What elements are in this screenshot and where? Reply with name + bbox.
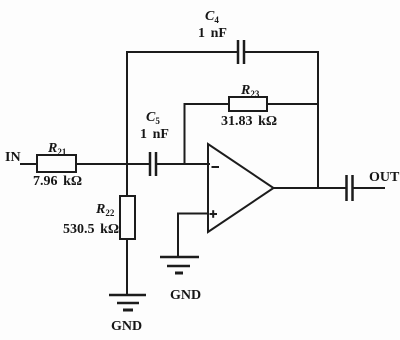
- svg-text:7.96 kΩ: 7.96 kΩ: [33, 174, 82, 189]
- svg-text:GND: GND: [111, 319, 142, 334]
- capacitor C5: [150, 152, 156, 176]
- wire op-amp output to coupling capacitor: [273, 187, 346, 189]
- resistor R23: [229, 97, 267, 111]
- wire node A up and across to C4 left plate: [127, 52, 236, 164]
- resistor R22: [120, 196, 135, 239]
- wire R23 left side down to inverting input node: [185, 104, 230, 164]
- wire C5 right plate to op-amp inverting input: [157, 163, 209, 165]
- wire R23 right side to output right leg: [267, 103, 318, 105]
- svg-text:1 nF: 1 nF: [198, 26, 227, 41]
- wire IN to R21: [21, 163, 37, 165]
- capacitor C4: [238, 40, 244, 64]
- svg-text:OUT: OUT: [369, 170, 400, 185]
- wire R21 to node A: [76, 163, 148, 165]
- wire R22 bottom to ground: [126, 239, 128, 294]
- wire node A down to R22: [126, 164, 128, 196]
- svg-text:31.83 kΩ: 31.83 kΩ: [221, 114, 277, 129]
- wire non-inverting input to ground: [178, 214, 208, 257]
- svg-text:IN: IN: [5, 150, 21, 165]
- svg-text:1 nF: 1 nF: [140, 127, 169, 142]
- output coupling capacitor: [347, 175, 353, 201]
- svg-text:GND: GND: [170, 288, 201, 303]
- resistor R21: [37, 155, 76, 172]
- ground at non-inverting input: [160, 257, 199, 273]
- wire C4 right plate to output node (top rail and right leg): [245, 52, 318, 188]
- ground below R22: [109, 295, 146, 310]
- wire coupling capacitor to OUT: [353, 187, 384, 189]
- op-amp U1: [208, 144, 274, 232]
- inverting input minus sign: [212, 166, 220, 168]
- non-inverting input plus sign: [210, 210, 218, 218]
- svg-text:530.5 kΩ: 530.5 kΩ: [63, 222, 119, 237]
